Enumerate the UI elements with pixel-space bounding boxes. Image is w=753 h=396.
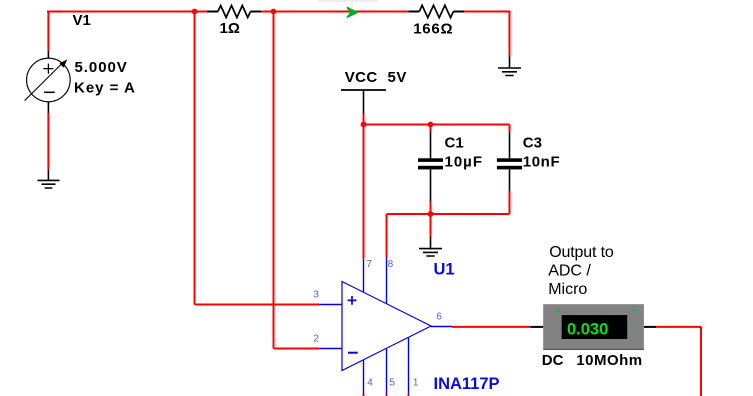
svg-text:5: 5 [389, 378, 395, 389]
svg-text:3: 3 [313, 289, 319, 300]
svg-text:V1: V1 [73, 12, 91, 29]
svg-text:1: 1 [413, 378, 419, 389]
svg-text:5.000V: 5.000V [75, 59, 128, 76]
svg-text:Key = A: Key = A [74, 80, 136, 97]
svg-text:8: 8 [388, 259, 394, 270]
svg-text:6: 6 [436, 312, 442, 323]
svg-text:7: 7 [366, 259, 372, 270]
svg-text:4: 4 [367, 378, 373, 389]
svg-text:Micro: Micro [548, 281, 587, 298]
svg-text:C3: C3 [523, 134, 542, 151]
svg-text:INA117P: INA117P [434, 375, 500, 393]
svg-text:ADC /: ADC / [548, 262, 591, 279]
svg-text:10MOhm: 10MOhm [576, 352, 642, 369]
svg-text:V: V [630, 321, 637, 333]
svg-text:C1: C1 [445, 134, 464, 151]
svg-text:10µF: 10µF [445, 153, 484, 170]
svg-text:166Ω: 166Ω [413, 20, 453, 37]
svg-text:U1: U1 [434, 261, 455, 279]
svg-text:DC: DC [542, 352, 564, 369]
svg-text:Output to: Output to [549, 244, 614, 261]
svg-text:2: 2 [313, 333, 319, 344]
svg-text:5V: 5V [388, 69, 407, 86]
svg-text:1Ω: 1Ω [220, 20, 240, 37]
svg-text:0.030: 0.030 [567, 320, 608, 338]
svg-text:10nF: 10nF [523, 153, 560, 170]
svg-text:VCC: VCC [345, 69, 378, 86]
